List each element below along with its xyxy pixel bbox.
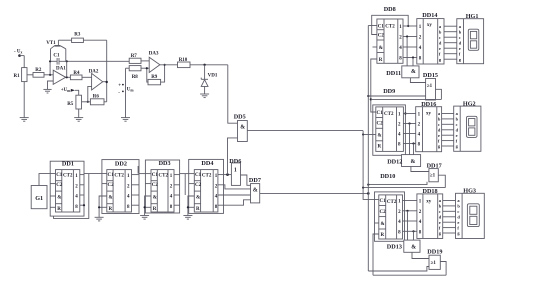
- ground under VD1: [200, 94, 209, 98]
- wire DD4 ground leads: [187, 196, 195, 216]
- svg-text:VT1: VT1: [46, 41, 56, 46]
- svg-text:xy: xy: [427, 23, 433, 28]
- svg-text:8: 8: [399, 57, 402, 62]
- wire DD10 enable stub: [375, 222, 379, 224]
- svg-text:8: 8: [398, 231, 401, 236]
- svg-text:C2: C2: [380, 210, 387, 215]
- capacitor C1: [53, 54, 60, 65]
- svg-text:C1: C1: [380, 199, 387, 204]
- svg-text:&: &: [411, 245, 416, 251]
- svg-text:R7: R7: [131, 54, 138, 59]
- svg-text:DD14: DD14: [422, 12, 437, 19]
- svg-text:&: &: [378, 134, 382, 139]
- svg-text:c: c: [439, 209, 441, 214]
- svg-text:e: e: [459, 46, 461, 51]
- wire DD14 to HG1 segment lines: [444, 26, 457, 59]
- wire R5 bottom to ground: [78, 109, 80, 118]
- wire DD16 to HG2 segment lines: [442, 114, 454, 147]
- svg-text:DD15: DD15: [423, 72, 438, 79]
- svg-text:DD12: DD12: [387, 158, 402, 165]
- svg-text:8: 8: [398, 143, 401, 148]
- svg-text:C1: C1: [195, 173, 202, 178]
- svg-text:CT2: CT2: [202, 173, 212, 178]
- svg-text:R5: R5: [67, 102, 74, 107]
- svg-text:c: c: [438, 122, 440, 127]
- svg-text:DD13: DD13: [387, 244, 402, 251]
- svg-text:8: 8: [127, 205, 130, 210]
- svg-text:C2: C2: [377, 122, 384, 127]
- wire DD15 output rail to DD9: [371, 89, 442, 99]
- svg-text:DD19: DD19: [427, 248, 442, 255]
- svg-text:e: e: [456, 133, 458, 138]
- svg-text:CT2: CT2: [385, 25, 395, 30]
- wire R2 to DA1 inverting input: [44, 74, 53, 76]
- gate DD5: [234, 114, 248, 142]
- svg-text:4: 4: [419, 46, 422, 51]
- svg-text:C1: C1: [377, 111, 384, 116]
- svg-text:2: 2: [398, 123, 401, 128]
- wire DD7 vertical bus: [367, 26, 369, 272]
- svg-text:d: d: [438, 128, 441, 133]
- wire DA3 output to R10: [160, 64, 178, 66]
- svg-text:b: b: [439, 29, 442, 34]
- svg-text:1: 1: [170, 174, 173, 179]
- resistor R7: [129, 54, 141, 63]
- gate DD7: [249, 177, 261, 203]
- svg-text:- Ux: - Ux: [14, 50, 23, 55]
- svg-text:R: R: [196, 207, 200, 212]
- svg-text:DD10: DD10: [380, 173, 395, 180]
- svg-text:Um: Um: [127, 88, 135, 93]
- counter DD4: [189, 159, 224, 213]
- svg-text:a: a: [459, 24, 462, 29]
- svg-text:2: 2: [418, 123, 421, 128]
- svg-text:DA3: DA3: [149, 52, 159, 57]
- svg-text:DD5: DD5: [234, 114, 246, 121]
- svg-text:b: b: [456, 117, 459, 122]
- wire DD4 out2 to DD7: [218, 185, 251, 189]
- wire DD3 to DD4 chain: [180, 174, 195, 195]
- svg-text:xy: xy: [426, 112, 432, 117]
- svg-text:1: 1: [215, 174, 218, 179]
- gate DD12: [387, 155, 420, 167]
- svg-text:4: 4: [398, 133, 401, 138]
- svg-text:1: 1: [418, 113, 421, 118]
- svg-text:C1: C1: [152, 173, 159, 178]
- resistor R3: [72, 33, 84, 43]
- wire DD8 C1 input: [368, 25, 377, 27]
- counter DD8: [377, 6, 403, 63]
- svg-text:VD1: VD1: [208, 74, 218, 79]
- svg-text:&: &: [381, 222, 385, 227]
- svg-text:a: a: [456, 111, 459, 116]
- svg-text:4: 4: [215, 195, 218, 200]
- svg-text:c: c: [457, 209, 459, 214]
- svg-text:&: &: [379, 46, 383, 51]
- resistor R4: [70, 71, 82, 80]
- svg-text:b: b: [459, 29, 462, 34]
- svg-text:8: 8: [419, 57, 422, 62]
- wire DA1 noninverting input to ground: [48, 81, 54, 89]
- ground under Um source: [121, 118, 130, 122]
- svg-text:DD11: DD11: [386, 70, 401, 77]
- svg-text:C2: C2: [56, 183, 63, 188]
- wire DA2 output node: [103, 81, 108, 83]
- wire DD5 output long line: [247, 130, 363, 132]
- svg-text:CT2: CT2: [384, 112, 394, 117]
- wire DD11 output to DD15: [410, 78, 425, 83]
- wire DD2 ground leads: [98, 196, 107, 217]
- node +Um arrow left: [61, 88, 79, 95]
- wire R8 left to Um source: [126, 68, 130, 117]
- svg-text:c: c: [439, 35, 441, 40]
- gate DD6: [229, 158, 241, 186]
- svg-text:c: c: [456, 122, 458, 127]
- svg-text:CT2: CT2: [387, 200, 397, 205]
- svg-text:R3: R3: [74, 33, 81, 38]
- transistor VT1: [46, 40, 66, 61]
- svg-text:≥1: ≥1: [431, 260, 437, 266]
- wire -Ux to R1: [23, 56, 25, 68]
- svg-text:HG2: HG2: [463, 100, 476, 107]
- svg-text:1: 1: [398, 200, 401, 205]
- wire rail DD7 to DD17 in2: [367, 182, 427, 186]
- svg-text:HG1: HG1: [466, 13, 479, 20]
- svg-text:DD7: DD7: [249, 177, 261, 184]
- resistor R1: [14, 68, 28, 82]
- svg-text:DD9: DD9: [383, 88, 395, 95]
- svg-text:4: 4: [170, 195, 173, 200]
- wire DD3 ground leads: [144, 196, 152, 216]
- svg-text:c: c: [459, 35, 461, 40]
- resistor R9: [148, 75, 161, 85]
- wire DD4 out4 to DD7: [218, 194, 251, 196]
- svg-text:≥1: ≥1: [427, 83, 433, 89]
- wire DD4 out8 to DD7: [218, 200, 251, 205]
- svg-text:d: d: [457, 215, 460, 220]
- resistor R2: [33, 68, 44, 77]
- svg-text:e: e: [439, 220, 441, 225]
- svg-text:a: a: [439, 198, 442, 203]
- wire DD8 outputs to DD14: [403, 26, 417, 66]
- svg-text:DA2: DA2: [89, 70, 99, 75]
- wire R1 bottom to ground: [23, 82, 25, 118]
- svg-text:1: 1: [234, 167, 237, 173]
- svg-text:DD1: DD1: [62, 160, 74, 167]
- svg-text:G1: G1: [35, 195, 43, 202]
- svg-text:g: g: [439, 57, 442, 62]
- wire DD8 enable stub: [373, 46, 377, 48]
- wire DD19 output rail to DD10 R: [373, 234, 446, 275]
- wire R6 right to DA2 output: [104, 101, 107, 103]
- op-amp DA1: [53, 67, 66, 85]
- wire DD5 line vertical to DD10 C1: [363, 131, 379, 200]
- wire DD10 outputs to DD18: [403, 201, 417, 241]
- svg-text:e: e: [439, 46, 441, 51]
- op-amp DA2: [89, 70, 103, 90]
- svg-text:C2: C2: [152, 183, 159, 188]
- counter DD2: [102, 160, 139, 214]
- svg-text:2: 2: [419, 36, 422, 41]
- wire rail DD7 to DD19 in2: [368, 267, 429, 272]
- svg-text:CT2: CT2: [114, 173, 124, 178]
- display HG3: [456, 188, 485, 239]
- svg-text:DA1: DA1: [56, 67, 66, 72]
- svg-text:4: 4: [127, 195, 130, 200]
- wire R10 to DD5 corner: [190, 64, 238, 124]
- wire R4 to DA2 inverting input: [82, 76, 92, 78]
- svg-text:b: b: [439, 204, 442, 209]
- svg-text:R: R: [57, 207, 61, 212]
- resistor R10: [178, 58, 191, 68]
- decoder DD18: [417, 188, 443, 238]
- wire R7 to DA3: [141, 60, 149, 62]
- svg-text:2: 2: [399, 36, 402, 41]
- gate DD11: [386, 66, 419, 78]
- wire DD18 to HG3 segment lines: [443, 201, 456, 234]
- svg-text:1: 1: [127, 174, 130, 179]
- svg-text:R6: R6: [93, 95, 100, 100]
- svg-text:R1: R1: [14, 74, 21, 79]
- wire DD12 output to DD17: [411, 167, 429, 172]
- svg-text:g: g: [438, 144, 441, 149]
- gate DD17: [427, 163, 442, 182]
- svg-text:&: &: [196, 196, 200, 201]
- svg-text:d: d: [439, 215, 442, 220]
- svg-text:&: &: [253, 187, 258, 193]
- wire R9 left to DA3 input: [146, 67, 148, 82]
- svg-text:&: &: [109, 196, 113, 201]
- svg-text:8: 8: [215, 205, 218, 210]
- svg-text:d: d: [459, 40, 462, 45]
- svg-text:4: 4: [75, 195, 78, 200]
- wire DD9 outputs to DD16: [403, 114, 415, 155]
- wire DD13 output to DD19: [412, 252, 429, 258]
- svg-text:d: d: [439, 40, 442, 45]
- svg-text:f: f: [456, 138, 458, 143]
- svg-text:CT2: CT2: [159, 173, 169, 178]
- ground under R5: [74, 118, 83, 122]
- svg-text:DD16: DD16: [421, 101, 436, 108]
- svg-text:b: b: [438, 117, 441, 122]
- svg-text:C1: C1: [56, 173, 63, 178]
- display HG2: [454, 100, 481, 151]
- wire reset rail under DD1: [54, 174, 89, 219]
- svg-text:a: a: [457, 198, 460, 203]
- decoder DD16: [416, 101, 442, 152]
- svg-text:DD3: DD3: [159, 160, 171, 167]
- svg-text:b: b: [457, 204, 460, 209]
- counter DD1: [50, 160, 85, 216]
- svg-text:4: 4: [399, 46, 402, 51]
- svg-text:R: R: [379, 58, 383, 63]
- svg-text:&: &: [57, 196, 61, 201]
- svg-text:f: f: [459, 51, 461, 56]
- svg-text:e: e: [457, 220, 459, 225]
- svg-text:8: 8: [418, 143, 421, 148]
- svg-text:DD2: DD2: [115, 160, 127, 167]
- svg-text:R: R: [378, 145, 382, 150]
- decoder DD14: [417, 12, 444, 64]
- svg-text:2: 2: [215, 184, 218, 189]
- wire G1 to DD1 C1: [39, 174, 56, 186]
- svg-text:&: &: [411, 159, 416, 165]
- svg-text:C1: C1: [378, 25, 385, 30]
- counter DD10: [375, 173, 405, 241]
- svg-text:R8: R8: [132, 75, 139, 80]
- svg-text:+: +: [118, 83, 121, 88]
- svg-text:DD6: DD6: [229, 158, 241, 165]
- svg-text:2: 2: [127, 184, 130, 189]
- wire DA2 noninverting input from R5-R6 node: [87, 86, 92, 103]
- resistor R5: [67, 95, 81, 109]
- ground at DA1 input: [43, 89, 51, 93]
- svg-text:e: e: [438, 133, 440, 138]
- svg-text:a: a: [438, 111, 441, 116]
- svg-text:8: 8: [170, 205, 173, 210]
- svg-text:f: f: [457, 225, 459, 230]
- ground under R1: [20, 118, 29, 122]
- ground under DD3: [140, 216, 149, 220]
- svg-text:R4: R4: [73, 71, 80, 76]
- wire DD8 R to rail: [370, 59, 377, 112]
- svg-text:4: 4: [419, 220, 422, 225]
- svg-text:a: a: [439, 24, 442, 29]
- svg-text:DD17: DD17: [427, 163, 442, 170]
- svg-text:8: 8: [419, 231, 422, 236]
- svg-text:g: g: [457, 231, 460, 236]
- svg-text:2: 2: [419, 210, 422, 215]
- svg-text:d: d: [456, 128, 459, 133]
- op-amp DA3: [149, 52, 160, 73]
- wire DD6 output to DD7: [241, 175, 251, 185]
- display HG1: [457, 13, 484, 64]
- wire R1 tap to R2: [27, 74, 33, 76]
- svg-text:f: f: [439, 51, 441, 56]
- gate DD19: [427, 248, 442, 269]
- wire DD8 out1 to C2 feedback: [372, 15, 410, 34]
- svg-text:g: g: [459, 57, 462, 62]
- diode VD1: [201, 65, 218, 94]
- svg-text:CT2: CT2: [63, 173, 73, 178]
- wire DD1 to DD2 chain: [84, 173, 107, 175]
- svg-text:≥1: ≥1: [430, 173, 436, 179]
- wire R9 right to DA3 output: [161, 64, 166, 82]
- svg-text:R9: R9: [151, 75, 158, 80]
- svg-text:g: g: [456, 144, 459, 149]
- wire DD2 to DD3 chain: [138, 166, 151, 174]
- svg-text:g: g: [439, 231, 442, 236]
- svg-text:2: 2: [75, 184, 78, 189]
- resistor R6: [90, 95, 104, 105]
- svg-text:1: 1: [75, 174, 78, 179]
- svg-text:f: f: [439, 225, 441, 230]
- svg-text:HG3: HG3: [463, 188, 476, 195]
- svg-text:DD8: DD8: [384, 6, 396, 13]
- wire DD7 output long line: [260, 192, 370, 195]
- ground under DD4: [183, 216, 192, 220]
- svg-text:R: R: [109, 207, 113, 212]
- svg-text:2: 2: [398, 210, 401, 215]
- svg-text:1: 1: [398, 113, 401, 118]
- wire R5 tap to R6: [82, 101, 91, 103]
- node -Ux input terminal: [14, 50, 24, 57]
- svg-text:4: 4: [398, 220, 401, 225]
- svg-text:DD18: DD18: [423, 188, 438, 195]
- svg-text:-: -: [118, 90, 120, 95]
- svg-text:C2: C2: [195, 183, 202, 188]
- svg-text:1: 1: [399, 25, 402, 30]
- svg-text:&: &: [240, 125, 245, 131]
- counter DD3: [145, 160, 179, 213]
- wire DD17 output rail to DD10: [362, 175, 445, 189]
- svg-text:C1: C1: [53, 54, 60, 59]
- ground under DD2: [95, 217, 104, 221]
- generator G1: [31, 186, 47, 209]
- gate DD13: [387, 240, 420, 252]
- svg-text:&: &: [153, 196, 157, 201]
- wire DD4 out1 to DD5 and DD6: [218, 138, 238, 176]
- svg-text:&: &: [411, 69, 416, 75]
- wire DA1 output: [66, 61, 71, 78]
- svg-text:R: R: [381, 233, 385, 238]
- wire R8 to DA3: [141, 67, 149, 69]
- wire R3 right to DA2 output: [83, 40, 106, 102]
- svg-text:f: f: [438, 138, 440, 143]
- node junction at DA1 input: [49, 61, 51, 76]
- svg-text:R10: R10: [179, 58, 188, 63]
- counter DD9: [373, 88, 407, 155]
- node +Um source right: [118, 83, 134, 95]
- svg-text:C2: C2: [108, 183, 115, 188]
- svg-text:2: 2: [170, 184, 173, 189]
- svg-text:R: R: [153, 207, 157, 212]
- svg-text:8: 8: [75, 205, 78, 210]
- svg-text:R2: R2: [35, 68, 42, 73]
- svg-text:1: 1: [419, 200, 422, 205]
- svg-text:4: 4: [418, 133, 421, 138]
- svg-text:C1: C1: [108, 173, 115, 178]
- wire integrator top rail: [49, 60, 129, 62]
- wire DD9 enable from DD5 line: [362, 133, 376, 135]
- svg-text:1: 1: [419, 25, 422, 30]
- gate DD15: [423, 72, 438, 100]
- wire rail DD7 to DD15 in2: [367, 95, 425, 97]
- svg-text:xy: xy: [426, 199, 432, 204]
- resistor R8: [129, 66, 141, 81]
- svg-text:DD4: DD4: [201, 160, 213, 167]
- wire R3 left to VT1 gate: [58, 39, 71, 41]
- svg-text:C2: C2: [378, 34, 385, 39]
- svg-text:+Um: +Um: [61, 88, 71, 93]
